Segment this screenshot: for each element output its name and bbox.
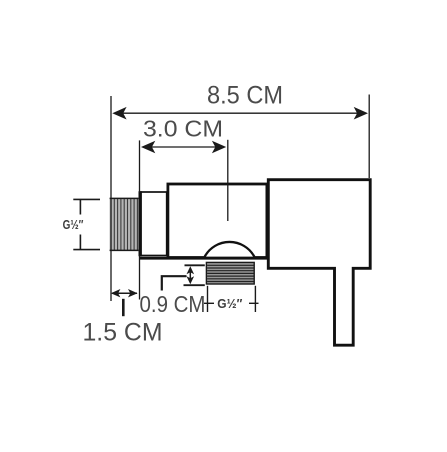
dimension 0.9 CM: bottom tick bar bbox=[184, 284, 205, 286]
dimension 3.0 CM: dimension line with arrowheads bbox=[141, 141, 226, 154]
svg-text:8.5 CM: 8.5 CM bbox=[207, 81, 283, 109]
svg-text:0.9 CM: 0.9 CM bbox=[140, 291, 206, 317]
inlet thread (male G1/2 nipple, vertical hatching) bbox=[110, 198, 139, 251]
left G1/2 dimension: bottom T-bar bbox=[73, 249, 100, 251]
valve body bbox=[168, 184, 267, 258]
bottom G1/2 dimension: right extension line with tick bbox=[249, 286, 259, 312]
svg-text:G½″: G½″ bbox=[217, 296, 242, 311]
collar (hex nut section) bbox=[140, 192, 167, 256]
collar left edge (thick junction with thread) bbox=[138, 191, 141, 256]
dimension 3.0 CM: left extension line bbox=[139, 140, 141, 192]
svg-text:G½″: G½″ bbox=[63, 217, 84, 232]
dimension 1.5 CM: right extension line bbox=[139, 256, 141, 300]
dimension 0.9 CM: vertical double arrow bbox=[187, 266, 195, 284]
left G1/2 dimension: vertical line segments bbox=[79, 199, 81, 249]
outlet dome (bonnet arc) bbox=[205, 242, 255, 257]
dimension 8.5 CM: left extension line bbox=[110, 96, 112, 301]
left G1/2 dimension: top T-bar bbox=[73, 198, 100, 200]
dimension 1.5 CM: leader line bbox=[122, 299, 125, 316]
handle block with lever stem bbox=[268, 180, 370, 346]
body bottom edge line (under dome, shared chord) bbox=[140, 257, 269, 260]
bottom G1/2 dimension: left extension line with tick bbox=[204, 286, 214, 312]
dimension 8.5 CM: dimension line with arrowheads bbox=[112, 107, 368, 120]
dimension 8.5 CM: right extension line bbox=[368, 95, 370, 179]
dimension 0.9 CM: L-shaped leader bbox=[162, 276, 187, 290]
svg-text:3.0 CM: 3.0 CM bbox=[143, 116, 223, 142]
dimension 0.9 CM: top tick bar bbox=[185, 264, 205, 266]
outlet thread (male G1/2, horizontal hatching) bbox=[206, 262, 254, 284]
dimension 3.0 CM: right extension line (into body) bbox=[227, 140, 229, 221]
svg-text:1.5 CM: 1.5 CM bbox=[83, 319, 163, 347]
dimension 1.5 CM: dimension line with small arrowheads bbox=[111, 289, 138, 297]
